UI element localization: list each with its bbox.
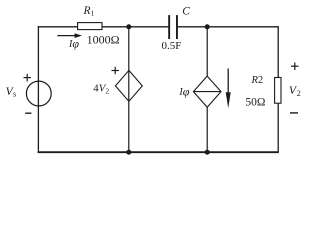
- svg-text:C: C: [182, 6, 190, 18]
- wire top rail left segment: [38, 26, 169, 28]
- wire bottom rail: [38, 151, 279, 153]
- plus sign of 4V2 source: [112, 67, 119, 74]
- horizontal diagonal of I-phi diamond: [193, 91, 221, 93]
- plus sign of V2: [291, 63, 299, 71]
- capacitor C right plate: [176, 15, 178, 39]
- wire middle branch through 4V2 source: [128, 27, 130, 152]
- minus sign of Vs: [25, 112, 31, 114]
- svg-text:0.5F: 0.5F: [162, 40, 182, 52]
- capacitor C left plate: [168, 15, 170, 39]
- plus sign of Vs: [24, 74, 32, 81]
- svg-text:50Ω: 50Ω: [245, 96, 265, 108]
- resistor R2 body: [275, 78, 281, 104]
- wire top rail right segment: [178, 26, 279, 28]
- node junction dot bottom left: [126, 150, 131, 155]
- dependent current source I-phi diamond: [193, 76, 221, 107]
- wire upper segment of I-phi source branch: [206, 27, 208, 77]
- svg-text:Iφ: Iφ: [68, 36, 79, 50]
- node junction dot top right: [205, 24, 210, 29]
- current arrow I-phi: [57, 33, 82, 38]
- minus sign of V2: [290, 112, 298, 114]
- node junction dot top left: [126, 24, 131, 29]
- svg-text:Vs: Vs: [6, 86, 17, 99]
- current direction arrow beside I-phi source: [226, 69, 231, 109]
- node junction dot bottom right: [205, 150, 210, 155]
- svg-text:Iφ: Iφ: [178, 85, 189, 99]
- dependent voltage source 4V2 diamond: [115, 70, 142, 101]
- resistor R1 body: [78, 23, 102, 30]
- svg-text:V2: V2: [289, 85, 301, 98]
- svg-text:R2: R2: [251, 75, 264, 86]
- wire left branch: [37, 26, 39, 152]
- voltage source Vs circle: [26, 81, 51, 106]
- svg-text:1000Ω: 1000Ω: [87, 32, 120, 46]
- wire lower segment of I-phi source branch: [206, 107, 208, 152]
- svg-text:4V2: 4V2: [93, 83, 109, 96]
- wire right branch: [277, 26, 279, 152]
- svg-text:R1: R1: [83, 5, 95, 18]
